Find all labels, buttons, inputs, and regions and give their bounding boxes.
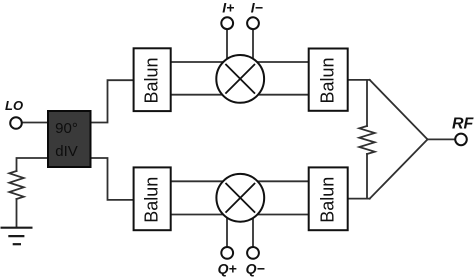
svg-text:I+: I+ (222, 0, 234, 15)
svg-text:Balun: Balun (142, 177, 162, 223)
svg-text:I−: I− (251, 0, 263, 15)
svg-text:Balun: Balun (318, 57, 338, 103)
svg-text:90°: 90° (55, 120, 78, 137)
svg-text:RF: RF (452, 116, 474, 133)
svg-text:Q−: Q− (246, 260, 265, 276)
svg-text:LO: LO (5, 98, 23, 113)
svg-text:Balun: Balun (142, 57, 162, 103)
svg-text:Balun: Balun (318, 177, 338, 223)
svg-text:dIV: dIV (55, 143, 78, 160)
svg-text:Q+: Q+ (218, 260, 237, 276)
